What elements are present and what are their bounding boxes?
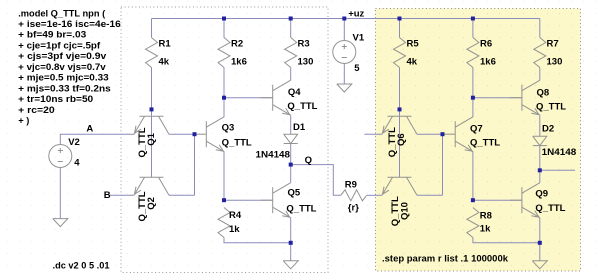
wire Q6 emitter stub [364,133,382,135]
transistor Q8 [510,80,566,115]
resistor R5 [394,38,420,68]
svg-text:+uz: +uz [348,9,364,20]
svg-text:D1: D1 [293,122,306,133]
voltage source V1 [333,33,365,75]
svg-text:R6: R6 [480,39,492,50]
wire Q7 base column [442,134,444,195]
svg-text:Q1: Q1 [146,132,157,145]
transistor Q3 [194,117,252,152]
wire input B [109,194,134,196]
wire Q3 emitter to R4 [223,152,225,201]
spice .model directive text [18,8,121,125]
svg-text:Q_TTL: Q_TTL [287,101,317,112]
wire Q7 emitter to R8 [472,152,474,201]
wire Q4 base [224,97,273,99]
svg-text:+ mje=0.5 mjc=0.33: + mje=0.5 mjc=0.33 [18,73,109,83]
wire Q3 base column [194,134,196,195]
junction net Q left [289,163,293,167]
svg-text:1N4148: 1N4148 [542,147,577,158]
junction Q5 base / R4 [222,198,226,202]
ground V2 [53,219,68,227]
svg-text:Q4: Q4 [288,87,301,98]
resistor R1 [146,38,172,68]
wire R6 bottom to Q7 collector [472,68,474,117]
svg-text:R3: R3 [298,39,310,50]
svg-text:+ tr=10ns rb=50: + tr=10ns rb=50 [18,94,93,104]
junction R3 top [289,17,293,21]
resistor R4 [218,208,242,238]
svg-text:Q: Q [305,155,312,166]
wire Q10 collector to node [417,194,443,196]
svg-text:.model Q_TTL npn (: .model Q_TTL npn ( [18,8,106,18]
junction V1 top [342,17,346,21]
wire V1 top [343,19,345,41]
ground V1 [337,84,352,92]
svg-text:Q9: Q9 [535,189,548,200]
svg-text:Q6: Q6 [396,133,407,146]
junction Q7 base [441,132,445,136]
junction R5 top [398,17,402,21]
wire R3 top [290,19,292,38]
wire R8 bottom [473,238,540,243]
junction Q3 base [193,132,197,136]
wire Q9 collector [539,170,541,182]
svg-text:+ mjs=0.33 tf=0.2ns: + mjs=0.33 tf=0.2ns [18,83,111,93]
svg-text:Q3: Q3 [222,123,235,134]
svg-text:B: B [104,190,111,201]
junction R6 top [471,17,475,21]
junction Q4 base [222,96,226,100]
svg-text:+ bf=49 br=.03: + bf=49 br=.03 [18,30,86,40]
wire R2 bottom to Q3 collector [223,68,225,117]
junction Q8 base [471,96,475,100]
svg-text:V1: V1 [353,33,365,44]
svg-text:5: 5 [354,63,360,74]
wire R3 bottom to Q4 collector [290,68,292,81]
svg-text:Q2: Q2 [146,197,157,210]
wire R7 top [539,19,541,38]
highlighted parameter-sweep region [376,9,581,272]
voltage source V2 [49,137,80,169]
wire D2 cathode to output node [539,146,541,171]
transistor Q10 [382,177,417,226]
resistor R7 [534,38,563,68]
wire input A [60,134,134,144]
wire Q8 base [473,97,522,99]
resistor R9 [341,179,367,213]
ground right output stage [532,261,547,269]
transistor Q7 [443,117,500,152]
svg-text:+ rc=20: + rc=20 [18,105,55,115]
svg-text:D2: D2 [542,124,554,135]
svg-text:1k: 1k [480,223,491,234]
svg-text:V2: V2 [68,137,80,148]
svg-text:1k6: 1k6 [231,57,247,68]
svg-text:+ ise=1e-16 isc=4e-16: + ise=1e-16 isc=4e-16 [18,19,121,29]
svg-text:R2: R2 [231,39,243,50]
svg-text:Q_TTL: Q_TTL [470,138,500,149]
svg-text:R1: R1 [159,39,172,50]
svg-text:130: 130 [547,57,563,68]
svg-text:4: 4 [74,157,80,168]
svg-text:{r}: {r} [348,203,359,214]
transistor Q4 [261,80,318,115]
wire R6 top [472,19,474,38]
junction Q1 base [150,107,154,111]
svg-text:1k: 1k [229,224,240,235]
svg-text:+ ): + ) [18,116,29,126]
wire R5 bottom to Q6/Q10 bases [399,68,401,178]
transistor Q2 [134,177,169,221]
wire Q5 collector [290,165,292,183]
transistor Q9 [510,183,566,218]
svg-text:1k6: 1k6 [480,57,496,68]
wire D1 cathode to node Q [290,144,292,165]
wire Q9 base [473,199,522,201]
wire Q5 base [224,199,273,201]
svg-text:Q10: Q10 [400,202,411,220]
wire net Q to R9 [291,165,341,196]
svg-text:Q_TTL: Q_TTL [286,204,316,215]
wire R5 top [399,19,401,38]
svg-text:+ vjc=0.8v vjs=0.7v: + vjc=0.8v vjs=0.7v [18,62,106,72]
wire R7 bottom to Q8 collector [539,68,541,81]
svg-text:Q_TTL: Q_TTL [536,102,566,113]
resistor R6 [467,38,496,68]
svg-text:+ cje=1pf cjc=.5pf: + cje=1pf cjc=.5pf [18,40,101,50]
wire Q8 emitter to D2 [539,115,541,136]
wire R9 to Q10 emitter [367,194,382,196]
wire Q5 emitter to ground [290,218,292,261]
svg-text:.step param r list .1 100000k: .step param r list .1 100000k [382,254,509,265]
wire R2 top [223,19,225,38]
wire output stub right [540,169,575,171]
svg-text:1N4148: 1N4148 [256,150,291,161]
junction output right [538,168,542,172]
transistor Q1 [134,116,169,157]
junction R2 top [222,17,226,21]
wire V2 bottom [59,168,61,219]
svg-text:R7: R7 [547,39,559,50]
wire Q2 collector to node [169,194,195,196]
wire Q6 collector to node [417,133,443,135]
svg-text:4k: 4k [407,57,418,68]
svg-text:+ cjs=3pf vje=0.9v: + cjs=3pf vje=0.9v [18,51,107,61]
wire R4 bottom [224,238,291,243]
junction Q9 base / R8 [471,198,475,202]
svg-text:R9: R9 [345,179,357,190]
junction bottom left [289,241,293,245]
svg-text:Q7: Q7 [470,124,483,135]
wire R1 top [151,19,153,38]
svg-text:Q8: Q8 [537,88,550,99]
transistor Q6 [382,116,417,157]
svg-text:A: A [86,123,93,134]
dashed outline left gate [121,7,328,273]
transistor Q5 [261,183,317,218]
wire Q9 emitter to ground [539,218,541,261]
svg-text:R5: R5 [407,39,420,50]
ground left output stage [283,261,298,269]
resistor R3 [285,38,314,68]
svg-text:.dc v2 0 5 .01: .dc v2 0 5 .01 [53,261,111,272]
resistor R2 [218,38,247,68]
diode D1 [256,122,306,161]
junction Q6 base [398,107,402,111]
wire +uz supply rail [152,18,540,20]
svg-text:4k: 4k [159,57,170,68]
wire R1 bottom to Q1/Q2 bases [151,68,153,178]
svg-text:R4: R4 [229,210,242,221]
wire Q4 emitter to D1 [290,115,292,134]
svg-text:Q_TTL: Q_TTL [222,138,252,149]
svg-text:Q_TTL: Q_TTL [535,203,565,214]
svg-text:130: 130 [298,57,314,68]
wire V1 bottom [343,64,345,85]
svg-text:R8: R8 [480,210,492,221]
wire Q1 collector to node [169,133,195,135]
svg-text:Q5: Q5 [288,187,301,198]
junction bottom right [538,241,542,245]
diode D2 [533,124,576,158]
resistor R8 [467,208,492,238]
